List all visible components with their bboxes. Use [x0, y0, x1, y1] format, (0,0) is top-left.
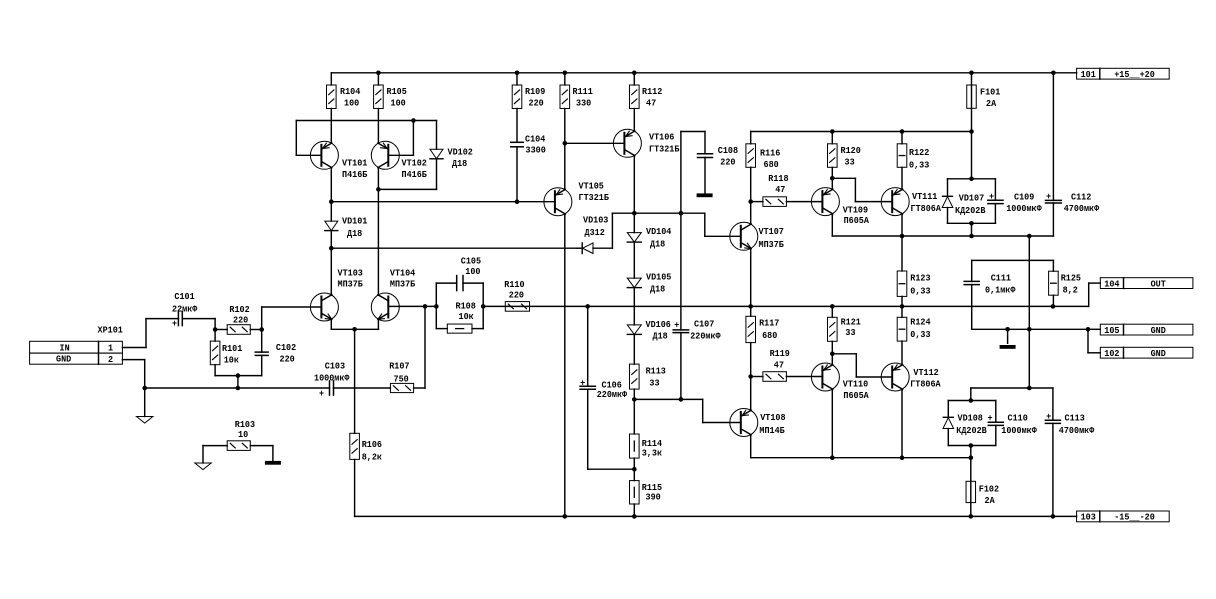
transistor VT105	[544, 188, 572, 216]
wire VD101 anode	[330, 202, 332, 221]
svg-text:VT112: VT112	[913, 367, 939, 378]
svg-text:R113: R113	[646, 365, 667, 376]
label VT110 П605А	[843, 379, 869, 401]
svg-text:VD108: VD108	[958, 413, 984, 424]
wire VD104 to VD105	[633, 242, 635, 278]
label R110 220	[504, 279, 525, 301]
node VT109 emitter / R120	[830, 176, 835, 181]
label R102 220	[229, 304, 250, 325]
node GND drop start	[1027, 234, 1032, 239]
label R105 100	[387, 86, 408, 109]
transistor VT112	[881, 363, 909, 391]
wire rail to R111	[564, 73, 566, 85]
resistor R105	[374, 85, 384, 109]
resistor R112	[630, 85, 640, 109]
label XP101	[98, 325, 124, 336]
node VT106 collector junction	[632, 211, 637, 216]
svg-text:104: 104	[1104, 278, 1119, 289]
label VT108 МП14Б	[759, 412, 785, 436]
label VT106 ГТ321Б	[649, 132, 680, 155]
node GND line junction	[1027, 327, 1032, 332]
node C108 branch junction	[679, 211, 684, 216]
svg-text:3,3к: 3,3к	[642, 447, 663, 458]
svg-text:ГТ321Б: ГТ321Б	[649, 144, 680, 155]
wire rail to F101	[971, 73, 973, 85]
wire emitters to R106	[354, 329, 356, 433]
ground chassis bar output	[1000, 345, 1016, 349]
label VT102 П416Б	[402, 158, 428, 181]
wire R107 to OUT line	[414, 306, 425, 388]
node VT105 emitter / VT106 base	[563, 141, 568, 146]
wire R120 to VT109 emitter	[831, 167, 833, 178]
node OUT line R123/R124	[900, 304, 905, 309]
svg-text:10: 10	[238, 429, 248, 440]
svg-text:+: +	[172, 318, 177, 329]
node OUT line R121 top	[830, 304, 835, 309]
svg-text:R107: R107	[389, 360, 410, 371]
wire VD103 anode to VT106 collector node	[612, 213, 740, 248]
svg-text:R119: R119	[770, 348, 791, 359]
svg-text:VD104: VD104	[646, 226, 672, 237]
resistor R111	[560, 85, 570, 109]
node GND to supply caps	[1027, 386, 1032, 391]
node top rail junction x=971.5	[969, 71, 974, 76]
node bottom rail junction x=634.3	[632, 514, 637, 519]
capacitor C112	[1046, 73, 1062, 236]
node top rail junction x=634.3	[632, 71, 637, 76]
svg-text:330: 330	[576, 98, 591, 109]
wire pin1 to C101	[122, 319, 178, 348]
ground triangle R103	[195, 463, 211, 470]
node feed R120	[830, 129, 835, 134]
resistor R104	[327, 85, 337, 109]
wire node to VD103 cathode	[331, 247, 577, 249]
label R107 750	[389, 360, 410, 384]
node VT110 emitter / R121	[830, 352, 835, 357]
svg-text:Д18: Д18	[650, 284, 665, 295]
ground chassis bar R103	[265, 461, 281, 465]
svg-text:220: 220	[280, 353, 295, 364]
wire OUT to R121	[831, 306, 833, 317]
node top rail junction x=378.4	[376, 71, 381, 76]
node common emitters	[352, 327, 357, 332]
label F101 2А	[980, 87, 1001, 110]
wire OUT line to tag	[1089, 283, 1101, 306]
node C101/R101/R102	[213, 327, 218, 332]
label R104 100	[340, 86, 361, 109]
label C103 1000мкФ	[314, 360, 350, 383]
resistor R101	[210, 341, 220, 365]
wire rail to R112	[633, 73, 635, 85]
svg-text:VT106: VT106	[649, 132, 675, 143]
wire F102 to -rail	[970, 503, 972, 517]
wire VD108/C110 box bottom edge	[948, 445, 996, 447]
wire VT107 collector up	[750, 202, 752, 224]
svg-text:VD103: VD103	[583, 215, 609, 226]
label C105 100	[461, 256, 482, 278]
wire VT105 collector to -rail	[564, 214, 566, 516]
label VD105 Д18	[646, 272, 672, 295]
wire VD104 anode	[633, 213, 635, 232]
svg-text:GND: GND	[1151, 325, 1166, 336]
svg-text:22мкФ: 22мкФ	[172, 304, 198, 315]
svg-text:+: +	[319, 388, 324, 399]
wire VD106 to R113	[633, 334, 635, 364]
capacitor C108	[698, 154, 713, 194]
svg-text:C110: C110	[1008, 413, 1029, 424]
svg-text:VT102: VT102	[402, 158, 428, 169]
wire VT101 base loop	[296, 121, 413, 156]
svg-text:МП37Б: МП37Б	[390, 279, 416, 290]
svg-text:0,1мкФ: 0,1мкФ	[985, 284, 1016, 295]
wire C106 to R114/R115 node	[588, 468, 635, 470]
node VD107 box top	[969, 177, 974, 182]
svg-text:R124: R124	[910, 316, 931, 327]
capacitor C104	[511, 109, 524, 202]
label R116 680	[760, 148, 781, 171]
capacitor C110	[987, 401, 1003, 446]
svg-text:C109: C109	[1014, 191, 1035, 202]
capacitor C113	[1045, 388, 1060, 516]
wire rail to R109	[516, 73, 518, 85]
transistor VT106	[613, 129, 641, 157]
svg-text:220: 220	[509, 290, 524, 301]
resistor R109	[512, 85, 522, 109]
svg-text:10к: 10к	[224, 354, 239, 365]
svg-text:OUT: OUT	[1151, 278, 1166, 289]
label VT104 МП37Б	[390, 268, 416, 290]
wire bottom node to GND line	[237, 376, 239, 388]
label R115 390	[642, 482, 663, 503]
label R101 10к	[222, 343, 243, 365]
transistor VT107	[730, 222, 758, 250]
svg-text:4700мкФ: 4700мкФ	[1059, 425, 1095, 436]
node R113/R114 junction	[632, 397, 637, 402]
svg-text:R120: R120	[841, 145, 862, 156]
resistor R107	[390, 383, 413, 392]
diode VD108 КД202В	[943, 401, 954, 446]
capacitor C105 / resistor R108 network	[436, 276, 483, 329]
svg-text:101: 101	[1081, 69, 1096, 80]
resistor R121	[828, 317, 838, 341]
wire R121 to VT110 emitter	[831, 341, 833, 354]
svg-text:10к: 10к	[459, 311, 474, 322]
node R101/C102 bottom	[236, 373, 241, 378]
wire feed node to VD107 box	[971, 132, 973, 179]
wire VT106 collector down	[633, 156, 635, 214]
wire VT109 emitter	[831, 178, 833, 189]
svg-text:2: 2	[108, 354, 113, 365]
wire VT110 collector down	[831, 389, 833, 457]
wire F101 to feed node	[971, 108, 973, 131]
node input GND	[142, 386, 147, 391]
label R111 330	[573, 86, 594, 109]
resistor R102	[215, 325, 250, 335]
label C108 220	[718, 145, 739, 167]
node OUT line VT107 emitter/R117	[748, 304, 753, 309]
node VD101 cathode / VT103 collector	[329, 246, 334, 251]
label R125 8,2	[1061, 272, 1082, 295]
svg-text:3300: 3300	[526, 145, 547, 156]
node OUT line R107 riser	[423, 304, 428, 309]
resistor R119	[751, 372, 823, 382]
capacitor C101	[172, 312, 182, 329]
svg-text:0,33: 0,33	[910, 329, 931, 340]
wire OUT / feedback line	[399, 305, 436, 307]
svg-text:47: 47	[646, 98, 656, 109]
wire VT103 collector up	[330, 248, 332, 295]
resistor R110	[505, 302, 529, 312]
wire base link to VD102	[413, 121, 436, 150]
node VT111 collector / R123	[900, 234, 905, 239]
resistor R118	[751, 197, 823, 207]
wire R116 to node	[750, 167, 752, 201]
svg-text:R108: R108	[456, 301, 477, 312]
resistor R124	[897, 317, 907, 341]
wire VD107/C109 box top edge	[948, 178, 996, 180]
label VD106 Д18	[646, 319, 672, 342]
svg-text:ГТ806А: ГТ806А	[911, 203, 942, 214]
svg-text:102: 102	[1104, 348, 1119, 359]
label F102 2А	[979, 484, 1000, 507]
wire rail to R104	[330, 73, 332, 85]
wire node to R123	[901, 236, 903, 271]
label C109 1000мкФ	[1006, 191, 1042, 214]
svg-text:ГТ321Б: ГТ321Б	[579, 192, 610, 203]
node C104 bottom junction	[515, 199, 520, 204]
svg-text:220: 220	[529, 98, 544, 109]
svg-text:VD101: VD101	[342, 216, 368, 227]
wire R113 to node	[633, 389, 635, 399]
label C102 220	[276, 342, 297, 364]
label R114 3,3к	[642, 438, 663, 459]
ground chassis bar under C108	[697, 193, 713, 197]
wire node to R114	[633, 399, 635, 434]
wire VT101 collector down	[330, 168, 332, 202]
wire box bottom to bus	[971, 223, 973, 236]
svg-text:GND: GND	[56, 354, 71, 365]
label R117 680	[759, 317, 780, 341]
node feed F101	[969, 129, 974, 134]
label VT112 ГТ806А	[910, 367, 941, 390]
node OUT line C106 drop	[585, 304, 590, 309]
svg-text:VT108: VT108	[760, 412, 786, 423]
connector tag 101 +15..+20	[1077, 68, 1170, 80]
wire VT111 collector down	[901, 214, 903, 236]
svg-text:МП37Б: МП37Б	[338, 279, 364, 290]
svg-text:47: 47	[775, 184, 785, 195]
label R108 10к	[456, 301, 477, 323]
transistor VT103	[310, 293, 338, 321]
wire VT107 emitter to OUT line	[750, 249, 752, 307]
svg-text:R123: R123	[910, 272, 931, 283]
node R114/R115 junction	[632, 467, 637, 472]
capacitor C107	[673, 213, 688, 399]
svg-text:+: +	[1046, 411, 1051, 422]
svg-text:R105: R105	[387, 86, 408, 97]
wire box bottom to bus	[970, 446, 972, 458]
transistor VT108	[730, 409, 758, 437]
node bottom bus VD108 box	[969, 455, 974, 460]
wire VT103 base	[262, 307, 322, 330]
wire C108 branch	[681, 132, 705, 214]
svg-text:КД202В: КД202В	[955, 205, 986, 216]
label R113 33	[646, 365, 667, 388]
wire VT112 collector down	[901, 389, 903, 457]
svg-text:100: 100	[344, 98, 359, 109]
label C106 220мкФ	[597, 380, 628, 401]
node bottom bus VT110 collector	[830, 455, 835, 460]
node R102/C102/VT103 base	[259, 327, 264, 332]
fuse F102 2А	[966, 481, 976, 502]
wire OUT to R117	[750, 306, 752, 316]
label VT109 П605А	[843, 204, 870, 225]
svg-text:2А: 2А	[986, 98, 996, 109]
node OUT line R125 bottom	[1051, 304, 1056, 309]
node top rail junction x=1053.4	[1051, 71, 1056, 76]
resistor R116	[746, 144, 756, 168]
svg-text:КД202В: КД202В	[956, 425, 987, 436]
diode VD107 КД202В	[942, 179, 953, 224]
svg-text:GND: GND	[1151, 348, 1166, 359]
wire C101 to R102 node	[182, 319, 215, 330]
svg-text:220: 220	[233, 314, 248, 325]
node C107 bottom junction	[679, 397, 684, 402]
connector tag 103 -15..-20	[1077, 511, 1170, 523]
wire pin2 to GND	[122, 360, 144, 388]
svg-text:+: +	[674, 320, 679, 331]
diode VD105 Д18	[627, 278, 641, 288]
svg-text:R121: R121	[841, 316, 862, 327]
label R118 47	[768, 173, 789, 195]
svg-text:+: +	[1046, 191, 1051, 202]
svg-text:П605А: П605А	[843, 390, 869, 401]
svg-text:VT104: VT104	[390, 268, 416, 279]
node VD107 box bottom link	[969, 234, 974, 239]
wire R101 top	[214, 330, 216, 342]
svg-text:2А: 2А	[985, 495, 995, 506]
label C110 1000мкФ	[1001, 413, 1037, 437]
label VD108 КД202В	[956, 413, 987, 437]
wire VT110 emitter	[831, 354, 833, 365]
resistor R123	[897, 271, 907, 296]
node bottom bus VT112 collector	[900, 455, 905, 460]
svg-text:ГТ806А: ГТ806А	[910, 379, 941, 390]
svg-text:1000мкФ: 1000мкФ	[1006, 203, 1042, 214]
wire R122 to VT111 emitter	[901, 167, 903, 189]
node VD107 box bottom	[969, 221, 974, 226]
wire R125 top link	[1052, 260, 1054, 271]
svg-text:390: 390	[646, 492, 661, 503]
resistor R117	[746, 316, 756, 342]
wire VT105 emitter	[564, 143, 566, 189]
wire VT108 emitter	[750, 377, 752, 411]
wire GND line to caps	[971, 387, 1053, 389]
svg-text:R104: R104	[340, 86, 361, 97]
node bottom rail junction x=564.8	[563, 514, 568, 519]
node VD108 box bottom	[969, 443, 974, 448]
wire GND feedback line	[145, 387, 330, 389]
diode VD106 Д18	[627, 325, 641, 335]
wire VD102 to VT102 collector	[378, 159, 436, 190]
svg-text:0,33: 0,33	[910, 286, 931, 297]
wire GND line	[972, 328, 1088, 330]
svg-text:47: 47	[774, 360, 784, 371]
wire bus to F102	[970, 458, 972, 482]
transistor VT102	[371, 141, 399, 169]
resistor R113	[630, 364, 640, 389]
wire OUT line mid	[483, 305, 1088, 307]
node GND stub	[1005, 327, 1010, 332]
wire R124 to VT112 emitter	[901, 341, 903, 365]
svg-text:R110: R110	[504, 279, 525, 290]
label VT105 ГТ321Б	[579, 181, 610, 204]
wire to tag 102	[1088, 329, 1100, 353]
wire feed line after F101	[751, 131, 972, 133]
svg-text:П416Б: П416Б	[342, 169, 368, 180]
label R103 10	[235, 419, 256, 440]
wire VT109 collector down	[832, 214, 1053, 236]
svg-text:П416Б: П416Б	[402, 169, 428, 180]
wire R113 node to VT108 base	[634, 399, 741, 422]
capacitor C109	[988, 179, 1003, 224]
wire R112 to VT106 emitter	[633, 109, 635, 132]
label R124 0,33	[910, 316, 931, 340]
wire R103 right stub	[272, 446, 274, 461]
svg-text:R101: R101	[222, 343, 243, 354]
wire R105 from rail	[377, 73, 379, 85]
resistor R120	[828, 132, 838, 168]
wire OUT to R124	[901, 306, 903, 317]
svg-text:R111: R111	[573, 86, 594, 97]
wire R114 to node	[633, 458, 635, 469]
wire emitter link	[331, 328, 378, 330]
svg-text:VD105: VD105	[646, 272, 672, 283]
svg-text:R109: R109	[525, 86, 546, 97]
transistor VT110	[811, 363, 839, 391]
svg-text:R117: R117	[759, 317, 780, 328]
node OUT line C105/R108 right	[481, 304, 486, 309]
wire VT104 base	[388, 305, 399, 307]
label VD107 КД202В	[955, 192, 986, 216]
wire VD108/C110 box top edge	[948, 400, 996, 402]
svg-text:33: 33	[649, 377, 659, 388]
svg-text:Д18: Д18	[347, 228, 362, 239]
node top rail junction x=517	[515, 71, 520, 76]
wire GND stub input	[144, 388, 146, 417]
node R117/R119/VT108 emitter	[748, 374, 753, 379]
node VT102 collector	[376, 187, 381, 192]
svg-text:C105: C105	[461, 256, 482, 267]
svg-text:100: 100	[465, 266, 480, 277]
wire upper +feed line	[750, 132, 752, 144]
svg-text:R118: R118	[768, 173, 789, 184]
svg-text:IN: IN	[60, 342, 70, 353]
wire R104 to VT101 emitter	[330, 109, 332, 144]
wire GND caps link	[970, 388, 972, 401]
node GND tags split	[1086, 327, 1091, 332]
label C104 3300	[525, 134, 546, 156]
svg-text:8,2к: 8,2к	[362, 452, 383, 463]
diode VD103 Д312	[577, 243, 612, 254]
svg-text:C104: C104	[525, 134, 546, 145]
svg-text:680: 680	[762, 330, 777, 341]
svg-text:33: 33	[845, 157, 855, 168]
svg-text:C113: C113	[1065, 412, 1086, 423]
node top rail junction x=564.8	[563, 71, 568, 76]
svg-text:33: 33	[845, 327, 855, 338]
node OUT line C105/R108 left	[434, 304, 439, 309]
